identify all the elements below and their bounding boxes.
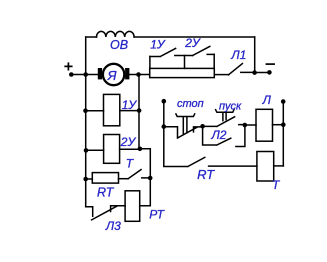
node pusk right bbox=[243, 123, 248, 128]
wire to minus bbox=[255, 72, 270, 74]
wire resistor to L1 bbox=[214, 74, 228, 76]
node 2U left bbox=[84, 148, 89, 153]
wire riser middle bbox=[184, 56, 186, 69]
wire L right bbox=[273, 124, 284, 126]
node RT left bbox=[83, 177, 88, 182]
wire top left bbox=[86, 36, 97, 38]
contact RT (right NO) bbox=[164, 127, 257, 167]
coil T (right) bbox=[257, 152, 274, 182]
svg-text:Л1: Л1 bbox=[230, 48, 246, 62]
svg-text:Я: Я bbox=[107, 68, 117, 83]
wire right control rail bbox=[282, 102, 284, 166]
node armature right bbox=[136, 72, 141, 77]
minus sign bbox=[266, 63, 274, 65]
node L right bbox=[281, 122, 286, 127]
svg-text:1У: 1У bbox=[122, 98, 138, 112]
coil RT (PT) bbox=[125, 191, 140, 222]
svg-text:Л2: Л2 bbox=[211, 128, 227, 142]
svg-text:пуск: пуск bbox=[219, 100, 242, 112]
contact L3 bbox=[86, 206, 125, 220]
wire 1U right bbox=[120, 110, 139, 112]
wire RT to T contact bbox=[119, 178, 129, 180]
svg-text:RT: RT bbox=[197, 167, 215, 182]
wire 2U left bbox=[86, 149, 104, 151]
resistor RT bbox=[92, 173, 118, 184]
svg-text:2У: 2У bbox=[184, 36, 201, 50]
wire armature to resistor bbox=[129, 74, 149, 76]
node 2U right bbox=[138, 147, 143, 152]
coil L bbox=[256, 109, 273, 141]
svg-text:Л3: Л3 bbox=[105, 219, 121, 233]
node stop left bbox=[162, 124, 167, 129]
node L1 right bbox=[252, 70, 257, 75]
contact L2 bbox=[203, 125, 245, 147]
button stop (NC) bbox=[164, 127, 203, 138]
wire 2U right bbox=[120, 148, 140, 150]
button start (pusk NO) bbox=[203, 117, 245, 127]
svg-text:РТ: РТ bbox=[149, 208, 165, 222]
terminal dot stop stub bbox=[162, 99, 167, 104]
minus terminal dot bbox=[267, 70, 272, 75]
plus terminal bbox=[65, 63, 72, 69]
node junction left rail / armature bbox=[83, 72, 88, 77]
wire top right bbox=[134, 36, 255, 38]
motor armature U (Я) bbox=[103, 64, 124, 85]
node T right bbox=[148, 176, 153, 181]
wire 1U left bbox=[86, 110, 104, 112]
node stop right bbox=[200, 124, 205, 129]
contact T (left column) bbox=[128, 170, 150, 179]
wire stop stub bbox=[163, 101, 165, 126]
wire right rail jog bbox=[140, 149, 151, 206]
svg-text:RT: RT bbox=[97, 186, 115, 200]
svg-text:Т: Т bbox=[126, 156, 135, 170]
contact 2U top bbox=[193, 46, 210, 55]
svg-text:Т: Т bbox=[272, 178, 281, 192]
node 1U right bbox=[137, 108, 142, 113]
stop actuator bbox=[176, 114, 195, 135]
contact L1 bbox=[229, 64, 255, 75]
wire left rail bbox=[85, 37, 87, 207]
wire right rail upper bbox=[138, 75, 140, 149]
contact 1U top bbox=[150, 48, 176, 56]
svg-text:Л: Л bbox=[262, 93, 272, 107]
svg-text:1У: 1У bbox=[150, 37, 166, 51]
wire right drop bbox=[254, 37, 256, 73]
wire 2U right terminal bbox=[207, 53, 214, 55]
wire riser right bbox=[213, 54, 215, 68]
inductor OB bbox=[97, 31, 135, 37]
plus terminal dot bbox=[69, 72, 74, 77]
coil 1U bbox=[104, 94, 120, 125]
wire mid terminal bbox=[175, 55, 193, 57]
wire L left bbox=[245, 124, 256, 126]
wire riser left bbox=[149, 57, 151, 69]
svg-text:2У: 2У bbox=[120, 135, 137, 149]
node 1U left bbox=[83, 108, 88, 113]
coil 2U bbox=[104, 135, 120, 164]
resistor starting (top) bbox=[150, 68, 215, 77]
svg-text:ОВ: ОВ bbox=[110, 38, 128, 52]
pusk actuator bbox=[216, 110, 234, 121]
wire + to armature bbox=[71, 74, 98, 76]
wire RT left bbox=[86, 178, 93, 180]
terminal dot right rail top bbox=[281, 99, 286, 104]
wire T right bbox=[274, 165, 284, 167]
svg-text:стоп: стоп bbox=[177, 98, 204, 110]
